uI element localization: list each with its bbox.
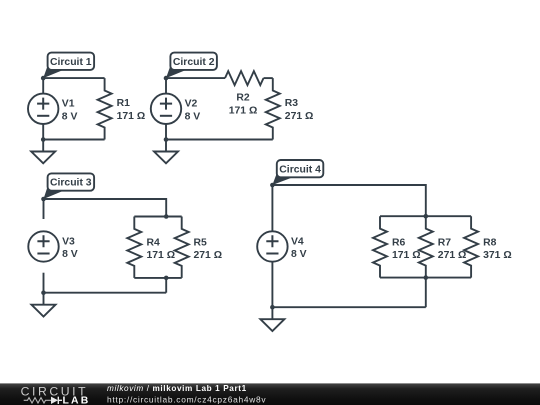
svg-text:271 Ω: 271 Ω	[438, 250, 467, 261]
svg-text:milkovim / milkovim Lab 1 Part: milkovim / milkovim Lab 1 Part1	[107, 384, 247, 393]
svg-text:171 Ω: 171 Ω	[229, 105, 258, 116]
CircuitLab logo resistor squiggle	[24, 398, 51, 403]
label R2 value	[229, 93, 258, 117]
svg-text:V1: V1	[62, 99, 75, 110]
label V1 value	[62, 99, 78, 123]
svg-text:R1: R1	[117, 98, 131, 109]
svg-text:Circuit 2: Circuit 2	[173, 57, 215, 68]
wire C1 bottom	[43, 139, 104, 141]
wire C2 bottom	[166, 139, 273, 141]
voltage source V4	[257, 231, 287, 261]
label R4 value	[147, 237, 176, 261]
wire C3 left lower	[43, 273, 45, 293]
label V4 value	[291, 236, 307, 260]
svg-text:V2: V2	[185, 99, 198, 110]
label V2 value	[185, 99, 201, 123]
svg-text:R4: R4	[147, 237, 161, 248]
node C3 parallel bottom junction	[164, 276, 169, 281]
node C2 bottom-left	[164, 137, 169, 142]
label Circuit 3 callout box	[44, 173, 95, 199]
wire C1 left lower	[42, 120, 44, 140]
svg-text:271 Ω: 271 Ω	[285, 111, 314, 122]
node C3 bottom-left	[41, 290, 46, 295]
node C4 top-left	[270, 183, 275, 188]
CircuitLab logo LAB text	[63, 396, 91, 405]
node C4 bottom-left	[270, 305, 275, 310]
svg-text:R8: R8	[483, 237, 497, 248]
svg-text:V4: V4	[291, 236, 304, 247]
svg-text:171 Ω: 171 Ω	[392, 250, 421, 261]
wire C4 parallel bottom bar	[380, 277, 471, 279]
wire C2 left lower	[165, 120, 167, 140]
node C3 parallel top junction	[164, 214, 169, 219]
wire C4 bottom feed	[425, 278, 427, 308]
node C4 parallel top junction	[424, 214, 429, 219]
wire C1 left upper	[42, 78, 44, 98]
node C2 top-left	[164, 76, 169, 81]
footer url line	[107, 394, 266, 404]
wire C4 bottom	[272, 306, 425, 308]
svg-text:R6: R6	[392, 237, 406, 248]
ground	[154, 140, 178, 164]
svg-text:Circuit 3: Circuit 3	[50, 178, 92, 189]
svg-text:8 V: 8 V	[185, 112, 201, 123]
voltage source V3	[28, 231, 58, 261]
svg-text:LAB: LAB	[63, 396, 91, 405]
svg-text:V3: V3	[62, 236, 75, 247]
label Circuit 1 callout box	[43, 53, 94, 79]
node C1 bottom-left	[41, 137, 46, 142]
wire C2 top left segment	[166, 77, 225, 79]
label R8 value	[483, 237, 512, 261]
svg-text:8 V: 8 V	[62, 249, 78, 260]
CircuitLab logo CIRCUIT text	[21, 384, 89, 398]
resistor R4	[127, 217, 141, 278]
wire C2 left upper	[165, 78, 167, 98]
resistor R5	[175, 217, 189, 278]
svg-text:Circuit 4: Circuit 4	[279, 164, 321, 175]
ground	[260, 307, 284, 331]
ground	[31, 140, 55, 164]
label R7 value	[438, 237, 467, 261]
svg-text:R7: R7	[438, 237, 452, 248]
ground	[32, 293, 56, 317]
wire C4 parallel top bar	[380, 215, 471, 217]
svg-text:R3: R3	[285, 98, 299, 109]
svg-text:R5: R5	[194, 237, 208, 248]
svg-text:171 Ω: 171 Ω	[117, 111, 146, 122]
wire C4 left upper	[271, 185, 273, 231]
wire C3 parallel top bar	[134, 216, 181, 218]
voltage source V2	[151, 94, 181, 124]
svg-text:171 Ω: 171 Ω	[147, 250, 176, 261]
label R3 value	[285, 98, 314, 122]
resistor R3	[266, 78, 280, 139]
wire C3 bottom	[44, 292, 167, 294]
svg-text:Circuit 1: Circuit 1	[50, 57, 92, 68]
wire C3 left upper	[43, 199, 45, 219]
wire C3 top feed	[44, 199, 167, 217]
wire C3 parallel bottom bar	[134, 277, 181, 279]
footer bar	[0, 383, 540, 405]
label Circuit 4 callout box	[272, 160, 323, 185]
wire C4 top feed	[272, 185, 425, 216]
resistor R8	[464, 216, 478, 277]
resistor R1	[98, 78, 112, 139]
node C4 parallel bottom junction	[424, 275, 429, 280]
svg-text:http://circuitlab.com/cz4cpz6a: http://circuitlab.com/cz4cpz6ah4w8v	[107, 394, 266, 404]
footer title line	[107, 384, 247, 393]
svg-text:271 Ω: 271 Ω	[194, 250, 223, 261]
wire C1 top	[43, 77, 104, 79]
CircuitLab logo diode	[51, 397, 62, 404]
wire C2 top right segment	[264, 77, 273, 79]
node C3 top-left	[41, 197, 46, 202]
label R5 value	[194, 237, 223, 261]
label Circuit 2 callout box	[166, 53, 217, 79]
node C1 top-left	[41, 76, 46, 81]
voltage source V1	[28, 94, 58, 124]
svg-text:R2: R2	[236, 93, 250, 104]
wire C3 bottom feed	[165, 278, 167, 293]
label R6 value	[392, 237, 421, 261]
svg-text:371 Ω: 371 Ω	[483, 250, 512, 261]
svg-text:8 V: 8 V	[62, 112, 78, 123]
resistor R7	[419, 216, 433, 277]
label V3 value	[62, 236, 78, 260]
wire C4 left lower	[271, 262, 273, 307]
resistor R2	[225, 71, 264, 85]
resistor R6	[373, 216, 387, 277]
svg-text:8 V: 8 V	[291, 249, 307, 260]
label R1 value	[117, 98, 146, 122]
